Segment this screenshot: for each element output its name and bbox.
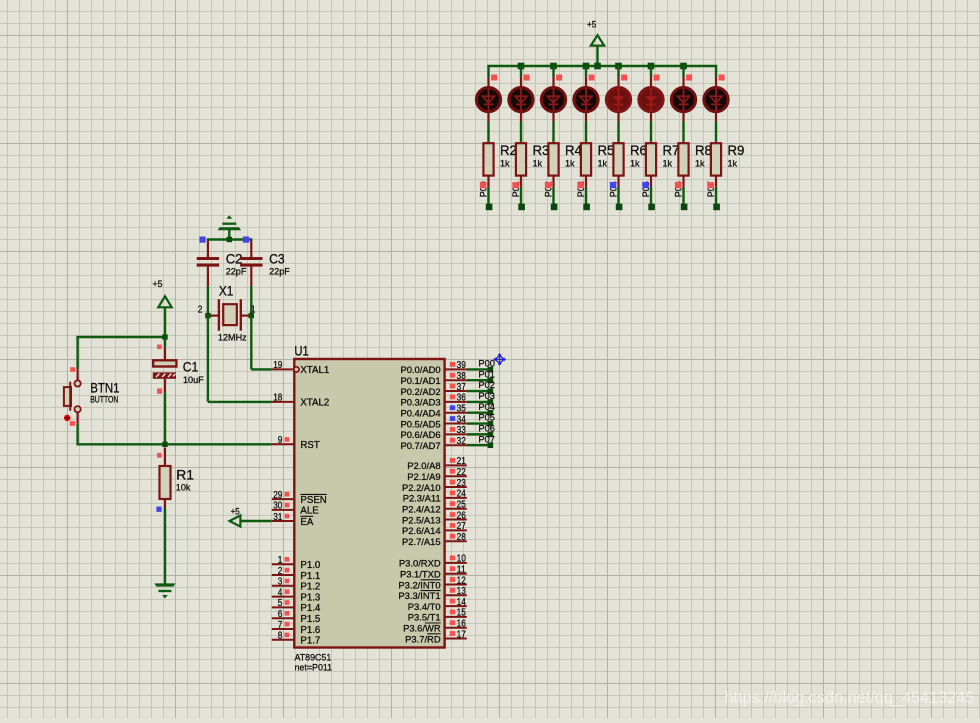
net label P02 (chip side): [478, 380, 495, 390]
pin number 30: [273, 501, 283, 512]
pin number 11: [457, 565, 467, 576]
wire: C1 top node down to capacitor C1: [164, 337, 166, 360]
pin number 9: [278, 435, 283, 446]
svg-text:P1.0: P1.0: [300, 560, 321, 571]
logic indicator at P06 terminal: [675, 182, 681, 188]
svg-text:P0.3/AD3: P0.3/AD3: [400, 397, 440, 408]
logic indicator (red) at LED D6 anode: [654, 75, 660, 81]
logic indicator at pin 36: [450, 394, 455, 399]
logic indicator at P07 terminal: [707, 182, 713, 188]
junction: RST row / C1-R1 node: [162, 442, 167, 447]
LED D3 (off): [540, 88, 567, 112]
net label P02: [543, 181, 553, 197]
svg-text:1k: 1k: [500, 159, 510, 169]
svg-text:EA: EA: [300, 517, 313, 528]
svg-text:7: 7: [278, 620, 283, 631]
logic indicator at pin 9: [285, 437, 290, 442]
label R9: [728, 143, 745, 158]
button actuation red dot: [64, 415, 71, 422]
svg-text:1k: 1k: [630, 159, 640, 169]
crystal X1: [208, 299, 251, 331]
logic indicator at pin 8: [285, 633, 290, 638]
logic indicator at pin 25: [450, 501, 455, 506]
logic indicator at pin 29: [285, 492, 290, 497]
svg-text:P3.1/TXD: P3.1/TXD: [400, 569, 441, 580]
pin 5 (P1.4) stub: [272, 606, 295, 608]
logic indicator (red) at C1 top: [157, 345, 162, 350]
junction: X1 pin 2 / C2: [205, 313, 210, 318]
svg-text:C1: C1: [183, 360, 199, 375]
svg-text:1: 1: [278, 555, 283, 566]
svg-text:P3.3/INT1: P3.3/INT1: [398, 590, 440, 601]
svg-text:27: 27: [457, 521, 467, 532]
label R6: [630, 143, 647, 158]
wire: pin 33 to net P06: [467, 433, 491, 435]
svg-text:28: 28: [457, 532, 467, 543]
svg-text:P00: P00: [478, 359, 495, 369]
pin number 13: [457, 586, 467, 597]
logic indicator at pin 13: [450, 588, 455, 593]
wire: rail to LED D8 anode: [715, 66, 717, 88]
terminal P00 (bottom of column): [486, 204, 493, 211]
pin name P0.5/AD5: [400, 418, 440, 429]
pin name P3.2/INT0: [398, 579, 440, 590]
net label P05: [641, 181, 651, 197]
power terminal +5 (reset branch): [153, 278, 172, 337]
svg-text:34: 34: [457, 414, 467, 425]
logic indicator (red) at BTN1 top: [70, 367, 75, 372]
pin number 1: [278, 555, 283, 566]
svg-text:10uF: 10uF: [183, 375, 204, 385]
svg-text:R1: R1: [176, 467, 194, 482]
XTAL1 pin dot: [294, 367, 299, 372]
pin 33 (P0.6/AD6) stub: [445, 433, 467, 435]
net label P07 (chip side): [478, 434, 495, 444]
svg-text:19: 19: [273, 360, 283, 371]
value 1k (R6): [630, 159, 640, 169]
wire: X1 pin2/C2 node to XTAL2: [208, 316, 272, 402]
wire: pin 39 to net P00: [467, 368, 491, 370]
logic indicator at pin 28: [450, 534, 455, 539]
pin number 28: [457, 532, 467, 543]
wire: resistor R7 to terminal P05: [650, 176, 652, 204]
svg-text:30: 30: [273, 501, 283, 512]
svg-text:37: 37: [457, 382, 467, 393]
pin 2 (P1.1) stub: [272, 574, 295, 576]
pin number 6: [278, 609, 283, 620]
terminal P04 (bottom of column): [616, 204, 623, 211]
svg-text:+5: +5: [587, 18, 596, 29]
svg-text:38: 38: [457, 371, 467, 382]
pin name P1.3: [300, 592, 320, 603]
pin name P0.7/AD7: [400, 440, 440, 451]
capacitor C1 (electrolytic): [153, 360, 177, 379]
wire: rail to LED D4 anode: [585, 66, 587, 88]
terminal P06 (chip side): [488, 432, 494, 438]
pin number 38: [457, 371, 467, 382]
terminal P00 (chip side): [488, 367, 494, 373]
pin 10 (P3.0/RXD) stub: [445, 562, 467, 564]
svg-text:https://blog.csdn.net/qq_45413: https://blog.csdn.net/qq_45413245: [725, 689, 975, 707]
logic indicator at P05 terminal: [642, 182, 648, 188]
svg-text:P3.2/INT0: P3.2/INT0: [398, 579, 440, 590]
svg-text:10k: 10k: [176, 482, 191, 492]
label U1: [294, 344, 308, 359]
pin 14 (P3.4/T0) stub: [445, 605, 467, 607]
pin name P3.4/T0: [408, 601, 441, 612]
pin number 33: [457, 425, 467, 436]
resistor R2: [483, 143, 493, 175]
pin number 5: [278, 598, 283, 609]
junction: rail / LED column 5: [615, 63, 622, 70]
logic indicator at pin 2: [285, 568, 290, 573]
pin 12 (P3.2/INT0) stub: [445, 584, 467, 586]
svg-text:P0.6/AD6: P0.6/AD6: [400, 429, 440, 440]
pin 9 (RST) stub: [272, 443, 295, 445]
svg-text:P2.0/A8: P2.0/A8: [407, 460, 440, 471]
pin name P1.7: [300, 636, 320, 647]
logic indicator (red) at LED D8 anode: [719, 75, 725, 81]
wire: pin 32 to net P07: [467, 444, 491, 446]
svg-text:R7: R7: [663, 143, 680, 158]
svg-text:P0.5/AD5: P0.5/AD5: [400, 418, 440, 429]
pin name P1.2: [300, 582, 320, 593]
label R4: [565, 143, 582, 158]
pin name P3.5/T1: [408, 612, 441, 623]
svg-text:1k: 1k: [728, 159, 738, 169]
svg-text:XTAL2: XTAL2: [300, 398, 329, 409]
logic indicator (red) at LED D7 anode: [686, 75, 692, 81]
pin name P3.3/INT1: [398, 590, 440, 601]
net label P04: [608, 181, 618, 197]
label C3: [269, 251, 285, 266]
svg-text:11: 11: [457, 565, 467, 576]
svg-text:P2.2/A10: P2.2/A10: [402, 482, 441, 493]
pin number 15: [457, 608, 467, 619]
wire: pin 34 to net P05: [467, 422, 491, 424]
label R1: [176, 467, 194, 482]
net label P07: [706, 181, 716, 197]
svg-text:P3.0/RXD: P3.0/RXD: [399, 558, 441, 569]
value 1k (R7): [663, 159, 673, 169]
svg-text:X1: X1: [219, 284, 234, 299]
svg-text:24: 24: [457, 489, 467, 500]
pin name P1.4: [300, 603, 321, 614]
logic indicator (red) at C1 bottom: [157, 388, 162, 393]
svg-text:P07: P07: [478, 434, 495, 444]
cursor crosshair: [493, 353, 506, 366]
logic indicator at pin 1: [285, 557, 290, 562]
logic indicator at pin 12: [450, 577, 455, 582]
svg-text:P1.3: P1.3: [300, 592, 320, 603]
pin 35 (P0.4/AD4) stub: [445, 412, 467, 414]
pin number 32: [457, 436, 467, 447]
pin number 27: [457, 521, 467, 532]
svg-text:15: 15: [457, 608, 467, 619]
pin name P1.0: [300, 560, 321, 571]
logic indicator (red) at R1 top: [157, 453, 162, 458]
net label P03: [576, 181, 586, 197]
logic indicator at pin 10: [450, 556, 455, 561]
pin 18 (XTAL2) stub: [272, 401, 295, 403]
wire: rail to LED D6 anode: [650, 66, 652, 88]
svg-text:R6: R6: [630, 143, 647, 158]
svg-text:R4: R4: [565, 143, 582, 158]
chip U1 AT89C51 body: [294, 359, 444, 648]
svg-text:17: 17: [457, 629, 467, 640]
pin 23 (P2.2/A10) stub: [445, 486, 467, 488]
svg-text:1k: 1k: [533, 159, 543, 169]
wire: LED D7 cathode to resistor R8: [682, 112, 684, 145]
ground symbol (top, above C2/C3): [218, 215, 242, 240]
net label P03 (chip side): [478, 391, 495, 401]
svg-text:RST: RST: [300, 440, 319, 451]
resistor R8: [678, 143, 688, 175]
svg-text:P1.6: P1.6: [300, 625, 320, 636]
terminal P06 (bottom of column): [681, 204, 688, 211]
pin 32 (P0.7/AD7) stub: [445, 444, 467, 446]
wire: rail to LED D5 anode: [617, 66, 619, 88]
logic indicator at P02 terminal: [545, 182, 551, 188]
terminal P03 (chip side): [488, 399, 494, 405]
pin number 18: [273, 393, 283, 404]
pin 4 (P1.3) stub: [272, 596, 295, 598]
pin name P2.5/A13: [402, 514, 441, 525]
wire: rail to LED D3 anode: [552, 66, 554, 88]
pin 36 (P0.3/AD3) stub: [445, 401, 467, 403]
pin 3 (P1.2) stub: [272, 585, 295, 587]
LED D5 (lit): [605, 88, 632, 112]
svg-text:14: 14: [457, 597, 467, 608]
svg-text:P1.2: P1.2: [300, 582, 320, 593]
value 10uF (C1): [183, 375, 204, 385]
svg-text:P3.5/T1: P3.5/T1: [408, 612, 441, 623]
net label P06: [673, 181, 683, 197]
wire: top rail to capacitor C2: [207, 241, 209, 258]
logic indicator at pin 26: [450, 512, 455, 517]
junction: rail / LED column 2: [518, 63, 525, 70]
svg-text:P03: P03: [478, 391, 495, 401]
pin name P0.1/AD1: [400, 375, 440, 386]
logic indicator at pin 24: [450, 490, 455, 495]
wire: capacitor C2 to crystal node: [207, 267, 209, 316]
svg-text:R5: R5: [598, 143, 615, 158]
pin number 31: [273, 512, 283, 523]
pin number 22: [457, 467, 467, 478]
logic indicator (red) at LED D4 anode: [589, 75, 595, 81]
svg-text:U1: U1: [294, 344, 308, 359]
svg-text:6: 6: [278, 609, 283, 620]
pin number 37: [457, 382, 467, 393]
logic indicator at pin 39: [450, 362, 455, 367]
wire: LED D5 cathode to resistor R6: [617, 112, 619, 145]
pin number 23: [457, 478, 467, 489]
wire: LED D2 cathode to resistor R3: [520, 112, 522, 145]
pin number 29: [273, 490, 283, 501]
pin name P2.7/A15: [402, 536, 441, 547]
logic indicator at P00 terminal: [480, 182, 486, 188]
terminal P01 (bottom of column): [518, 204, 525, 211]
svg-text:P0.7/AD7: P0.7/AD7: [400, 440, 440, 451]
svg-text:P0.4/AD4: P0.4/AD4: [400, 408, 440, 419]
label R5: [598, 143, 615, 158]
value 22pF (C3): [269, 267, 290, 277]
ground symbol (below R1): [154, 583, 175, 598]
wire: capacitor C1 to RST row: [164, 379, 166, 445]
pin 24 (P2.3/A11) stub: [445, 497, 467, 499]
pin name P2.6/A14: [402, 525, 441, 536]
pin name P2.3/A11: [403, 493, 441, 504]
logic indicator at pin 38: [450, 373, 455, 378]
svg-text:1k: 1k: [695, 159, 705, 169]
logic indicator at P04 terminal: [610, 182, 616, 188]
wire: resistor R2 to terminal P00: [487, 176, 489, 204]
pin 25 (P2.4/A12) stub: [445, 508, 467, 510]
logic indicator at pin 31: [285, 514, 290, 519]
pin 38 (P0.1/AD1) stub: [445, 379, 467, 381]
terminal P07 (chip side): [488, 442, 494, 448]
svg-text:P05: P05: [478, 413, 495, 423]
net label P01: [511, 181, 521, 197]
svg-text:35: 35: [457, 404, 467, 415]
logic indicator at P01 terminal: [512, 182, 518, 188]
svg-text:P3.7/RD: P3.7/RD: [405, 633, 441, 644]
logic indicator at pin 32: [450, 438, 455, 443]
pin 6 (P1.5) stub: [272, 617, 295, 619]
pin 28 (P2.7/A15) stub: [445, 540, 467, 542]
pin name P3.7/RD: [405, 633, 441, 644]
wire: pin 36 to net P03: [467, 401, 491, 403]
svg-text:31: 31: [273, 512, 283, 523]
LED D8 (off): [702, 88, 729, 112]
svg-text:5: 5: [278, 598, 283, 609]
pin name P1.5: [300, 614, 320, 625]
svg-text:P1.4: P1.4: [300, 603, 321, 614]
junction: rail / LED column 7: [680, 63, 687, 70]
svg-text:25: 25: [457, 500, 467, 511]
capacitor C2: [197, 259, 219, 266]
svg-text:P2.7/A15: P2.7/A15: [402, 536, 441, 547]
wire: BTN1 bottom to RST row: [76, 412, 271, 444]
wire: rail to LED D7 anode: [682, 66, 684, 88]
logic indicator (red) at LED D2 anode: [524, 75, 530, 81]
logic indicator (blue) at C2 top: [199, 237, 205, 243]
LED D2 (off): [507, 88, 534, 112]
svg-text:P2.3/A11: P2.3/A11: [403, 493, 441, 504]
svg-text:P0.0/AD0: P0.0/AD0: [400, 364, 440, 375]
wire: top rail to capacitor C3: [250, 241, 252, 258]
svg-text:P04: P04: [478, 402, 495, 412]
pin name ALE: [300, 506, 319, 517]
resistor R4: [548, 143, 558, 175]
value 1k (R4): [565, 159, 575, 169]
junction: rail / LED column 4: [583, 63, 590, 70]
terminal P03 (bottom of column): [583, 204, 590, 211]
wire: LED D8 cathode to resistor R9: [715, 112, 717, 145]
svg-text:22pF: 22pF: [269, 267, 290, 277]
label C2: [226, 251, 243, 266]
pin name P0.4/AD4: [400, 408, 440, 419]
svg-text:C3: C3: [269, 251, 285, 266]
pin 29 (PSEN) stub: [272, 498, 295, 500]
svg-text:P3.4/T0: P3.4/T0: [408, 601, 441, 612]
junction: X1 pin 1 / C3: [249, 313, 254, 318]
pin number 34: [457, 414, 467, 425]
wire: pin 35 to net P04: [467, 412, 491, 414]
pin name P2.1/A9: [407, 471, 440, 482]
wire: XTAL top rail (C2/C3 tops): [207, 238, 253, 240]
wire: rail to LED D2 anode: [520, 66, 522, 88]
pin 1 (P1.0) stub: [272, 563, 295, 565]
svg-text:P2.5/A13: P2.5/A13: [402, 514, 441, 525]
resistor R3: [516, 143, 526, 175]
pin 17 (P3.7/RD) stub: [445, 638, 467, 640]
LED D1 (off): [475, 88, 502, 112]
svg-text:32: 32: [457, 436, 467, 447]
pin number 10: [457, 554, 467, 565]
resistor R7: [646, 143, 656, 175]
pin name P1.1: [300, 571, 320, 582]
wire: resistor R1 to ground: [164, 499, 166, 584]
net label P00 (chip side): [478, 359, 495, 369]
pin number 21: [457, 456, 467, 467]
label R7: [663, 143, 680, 158]
junction: rail / LED column 3: [550, 63, 557, 70]
pin number 35: [457, 404, 467, 415]
value 22pF (C2): [226, 267, 247, 277]
net label P06 (chip side): [478, 423, 495, 433]
terminal P02 (chip side): [488, 388, 494, 394]
wire: capacitor C3 to crystal node: [250, 267, 252, 316]
pin 26 (P2.5/A13) stub: [445, 519, 467, 521]
pin number 12: [457, 575, 467, 586]
logic indicator at pin 30: [285, 503, 290, 508]
pin name RST: [300, 440, 319, 451]
pin name P0.3/AD3: [400, 397, 440, 408]
logic indicator at pin 15: [450, 610, 455, 615]
power terminal +5 (top): [587, 18, 604, 66]
logic indicator at pin 22: [450, 469, 455, 474]
resistor R9: [711, 143, 721, 175]
logic indicator at pin 14: [450, 599, 455, 604]
svg-text:R9: R9: [728, 143, 745, 158]
svg-text:1k: 1k: [663, 159, 673, 169]
wire: LED D6 cathode to resistor R7: [650, 112, 652, 145]
value 1k (R9): [728, 159, 738, 169]
net label P05 (chip side): [478, 413, 495, 423]
svg-text:P0.2/AD2: P0.2/AD2: [400, 386, 440, 397]
pin 22 (P2.1/A9) stub: [445, 475, 467, 477]
pin 13 (P3.3/INT1) stub: [445, 594, 467, 596]
label R3: [533, 143, 550, 158]
terminal P05 (chip side): [488, 421, 494, 427]
svg-text:33: 33: [457, 425, 467, 436]
logic indicator at pin 21: [450, 458, 455, 463]
svg-text:4: 4: [278, 587, 283, 598]
svg-text:23: 23: [457, 478, 467, 489]
terminal P02 (bottom of column): [551, 204, 558, 211]
logic indicator (red) at LED D5 anode: [621, 75, 627, 81]
logic indicator at P03 terminal: [577, 182, 583, 188]
logic indicator at pin 5: [285, 600, 290, 605]
resistor R5: [581, 143, 591, 175]
logic indicator at pin 6: [285, 611, 290, 616]
logic indicator at pin 33: [450, 427, 455, 432]
value 1k (R5): [598, 159, 608, 169]
svg-text:26: 26: [457, 510, 467, 521]
pin 30 (ALE) stub: [272, 509, 295, 511]
svg-text:P1.5: P1.5: [300, 614, 320, 625]
